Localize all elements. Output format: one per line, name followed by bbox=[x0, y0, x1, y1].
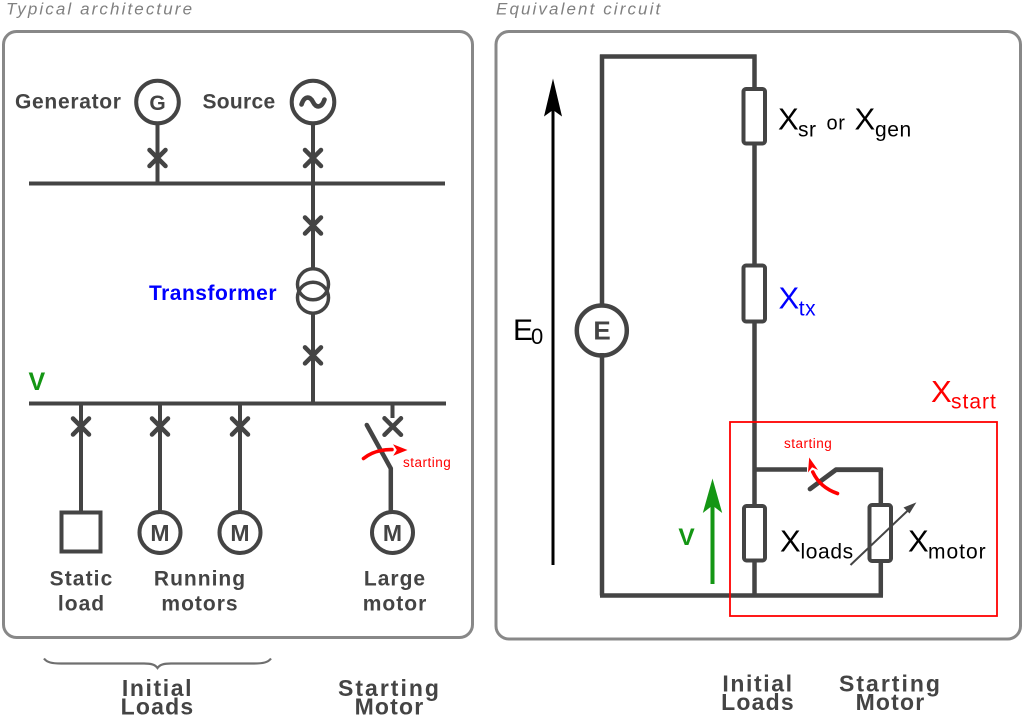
bus 2 (lower bus) bbox=[29, 402, 446, 406]
svg-text:X: X bbox=[780, 524, 801, 559]
svg-text:tx: tx bbox=[799, 298, 817, 321]
svg-text:E: E bbox=[593, 316, 610, 346]
static load box bbox=[62, 513, 101, 552]
wire bus1 to transformer bbox=[311, 184, 315, 270]
large motor M circle bbox=[372, 512, 413, 553]
reactance Xtx box bbox=[744, 266, 766, 322]
svg-text:Equivalent circuit: Equivalent circuit bbox=[496, 0, 662, 19]
generator G circle bbox=[136, 81, 179, 124]
svg-text:X: X bbox=[855, 102, 876, 137]
source tilde bbox=[302, 98, 325, 107]
svg-text:X: X bbox=[931, 374, 952, 409]
variable arrow through Xmotor bbox=[851, 508, 912, 566]
svg-text:loads: loads bbox=[801, 541, 854, 564]
switch blade (open) bbox=[810, 470, 881, 489]
svg-text:M: M bbox=[383, 520, 402, 546]
svg-text:Running: Running bbox=[154, 568, 246, 591]
wire bus2 to static load bbox=[79, 404, 83, 513]
wire Xloads to bottom bbox=[752, 560, 757, 596]
wire left vertical (source branch) bbox=[600, 55, 605, 307]
brace under initial loads bbox=[44, 659, 271, 669]
wire Xsr to Xtx bbox=[752, 143, 757, 266]
svg-text:gen: gen bbox=[875, 119, 912, 142]
svg-text:0: 0 bbox=[531, 324, 543, 349]
svg-text:load: load bbox=[58, 593, 105, 616]
breaker X large motor bbox=[385, 418, 402, 435]
left panel frame bbox=[4, 32, 473, 638]
wire stub bus2 to large motor breaker bbox=[391, 404, 395, 419]
svg-text:Loads: Loads bbox=[121, 694, 195, 715]
wire Xmotor to bottom bbox=[879, 561, 884, 596]
running motor 2 M circle bbox=[220, 512, 261, 553]
svg-text:X: X bbox=[779, 281, 800, 316]
breaker X on source feeder bbox=[305, 150, 321, 166]
running motor 1 M circle bbox=[140, 512, 181, 553]
breaker X static load bbox=[73, 419, 89, 435]
wire below E bbox=[600, 353, 605, 596]
svg-text:Generator: Generator bbox=[15, 91, 122, 114]
svg-text:start: start bbox=[951, 391, 997, 414]
svg-text:Large: Large bbox=[364, 568, 426, 591]
svg-text:motors: motors bbox=[161, 593, 238, 616]
svg-text:V: V bbox=[678, 524, 695, 551]
wire bus2 to running motor 2 bbox=[238, 404, 242, 513]
svg-text:or: or bbox=[827, 113, 846, 135]
svg-text:motor: motor bbox=[928, 541, 987, 564]
wire top horizontal bbox=[600, 54, 757, 59]
wire bottom horizontal bbox=[600, 593, 883, 598]
E0 arrow bbox=[552, 108, 555, 565]
wire bus2 to running motor 1 bbox=[158, 404, 162, 513]
breaker X on generator feeder bbox=[150, 150, 166, 166]
right panel frame bbox=[496, 32, 1021, 640]
red region Xstart bbox=[730, 422, 997, 616]
svg-text:starting: starting bbox=[784, 436, 832, 451]
svg-text:G: G bbox=[149, 92, 165, 115]
reactance Xmotor box (variable) bbox=[870, 505, 892, 561]
svg-text:motor: motor bbox=[363, 593, 428, 616]
wire generator to bus bbox=[156, 123, 160, 183]
transformer winding 2 bbox=[298, 282, 329, 313]
wire source to bus bbox=[311, 123, 315, 183]
breaker X above transformer bbox=[305, 218, 321, 234]
svg-text:Typical architecture: Typical architecture bbox=[6, 0, 194, 19]
open switch blade large motor bbox=[367, 425, 391, 511]
svg-text:V: V bbox=[29, 368, 46, 396]
wire down to Xmotor bbox=[879, 468, 884, 507]
svg-text:M: M bbox=[230, 520, 249, 546]
starting arc arrow (red) bbox=[364, 450, 393, 459]
reactance Xsr box bbox=[744, 89, 766, 144]
wire transformer to bus2 bbox=[311, 313, 315, 404]
wire right vertical to Xsr bbox=[752, 55, 757, 89]
source E circle bbox=[577, 306, 627, 356]
svg-text:Motor: Motor bbox=[355, 694, 425, 715]
reactance Xloads box bbox=[744, 506, 765, 561]
breaker X running motor 2 bbox=[232, 419, 248, 435]
svg-text:Transformer: Transformer bbox=[149, 282, 277, 305]
breaker X below transformer bbox=[305, 347, 321, 363]
breaker X running motor 1 bbox=[152, 419, 168, 435]
svg-text:X: X bbox=[908, 524, 929, 559]
source circle bbox=[292, 81, 335, 124]
svg-text:Motor: Motor bbox=[856, 689, 926, 715]
svg-text:Static: Static bbox=[50, 568, 114, 591]
wire branch to switch bbox=[755, 467, 808, 472]
transformer winding 1 bbox=[298, 269, 329, 300]
svg-text:M: M bbox=[150, 520, 169, 546]
svg-text:Loads: Loads bbox=[721, 689, 795, 715]
starting arc arrow (red, right) bbox=[813, 472, 838, 494]
svg-text:Source: Source bbox=[203, 91, 276, 114]
svg-text:starting: starting bbox=[403, 455, 451, 470]
bus 1 (upper bus) bbox=[29, 182, 445, 186]
svg-text:X: X bbox=[778, 102, 799, 137]
svg-text:sr: sr bbox=[798, 119, 817, 142]
V arrow (green) bbox=[711, 505, 715, 584]
svg-text:E: E bbox=[513, 314, 533, 347]
wire Xtx down to Xloads bbox=[752, 321, 757, 507]
